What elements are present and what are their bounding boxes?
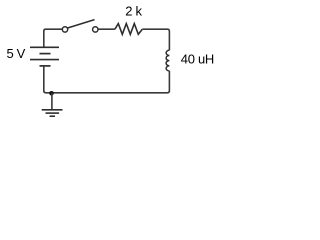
svg-text:40 uH: 40 uH: [181, 52, 214, 67]
junction node dot: [49, 91, 54, 96]
wire top-left from battery to switch contact: [44, 29, 62, 47]
ground bar 3: [50, 115, 55, 117]
switch S1 contact circle right: [93, 27, 98, 32]
battery V1 top plate long: [30, 46, 59, 48]
switch S1 contact circle left: [62, 27, 67, 32]
battery V1 bottom plate short: [40, 65, 51, 67]
wire battery negative down to bottom rail: [44, 66, 52, 93]
resistor R1 zigzag: [115, 24, 142, 35]
battery V1 plate short: [40, 53, 51, 55]
svg-text:2 k: 2 k: [125, 3, 142, 18]
wire switch to resistor: [98, 28, 115, 30]
ground bar 1: [42, 109, 63, 111]
ground stem: [51, 93, 53, 110]
ground bar 2: [46, 112, 60, 114]
switch S1 blade: [68, 20, 95, 28]
battery V1 plate long: [30, 59, 59, 61]
wire inductor bottom to bottom rail: [54, 71, 170, 93]
inductor L1 coil: [166, 50, 169, 71]
svg-text:5 V: 5 V: [7, 46, 26, 61]
wire resistor to top-right corner and down to inductor: [142, 29, 169, 50]
